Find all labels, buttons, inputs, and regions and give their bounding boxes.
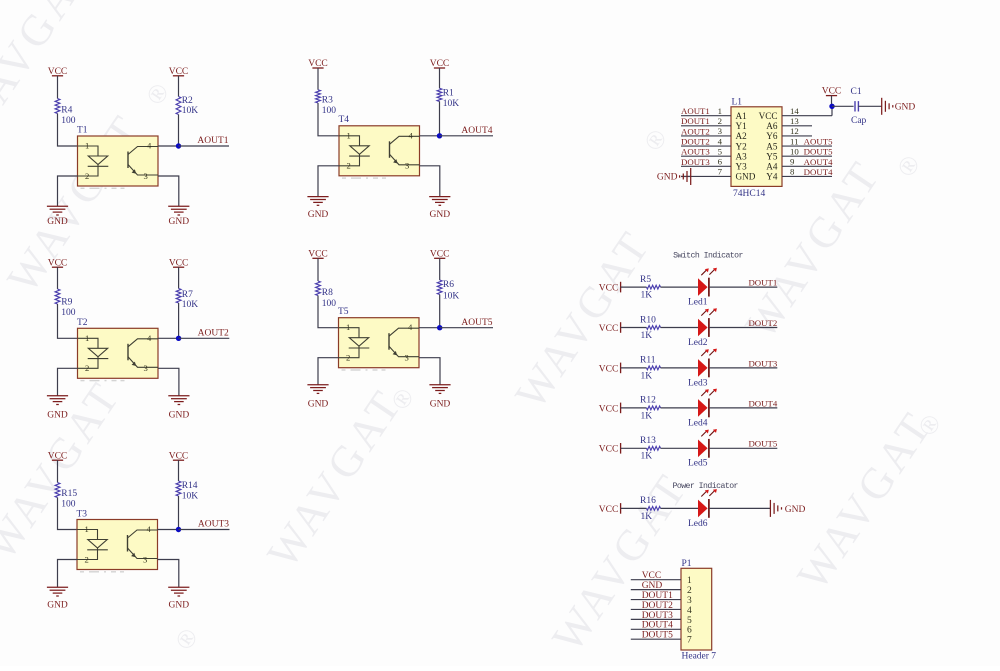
pin 9 of L1: [782, 157, 832, 167]
svg-text:P1: P1: [682, 559, 692, 569]
svg-text:11: 11: [790, 136, 798, 146]
svg-text:DOUT5: DOUT5: [642, 631, 673, 641]
svg-text:1: 1: [85, 141, 89, 151]
wire: [621, 407, 647, 409]
svg-text:2: 2: [85, 554, 89, 564]
optocoupler T4: [339, 115, 420, 178]
svg-text:1K: 1K: [641, 291, 653, 301]
node AOUT5: [437, 325, 442, 330]
wire: [621, 367, 647, 369]
IC U1 74HC14 (L1): [731, 98, 782, 199]
svg-text:R12: R12: [640, 396, 656, 406]
svg-text:2: 2: [85, 171, 89, 181]
svg-text:AOUT2: AOUT2: [681, 126, 710, 136]
wire: [420, 135, 440, 137]
ground: [770, 500, 805, 517]
wire: [318, 166, 339, 197]
resistor R7: [176, 289, 198, 311]
svg-text:10K: 10K: [182, 106, 199, 116]
wire: [419, 327, 440, 329]
ground: [307, 197, 328, 220]
svg-text:3: 3: [718, 126, 723, 136]
svg-text:GND: GND: [642, 581, 663, 591]
wire: [317, 258, 319, 281]
svg-text:GND: GND: [47, 217, 68, 227]
svg-text:2: 2: [347, 161, 351, 171]
wire: [681, 175, 691, 177]
pin 7 of L1: [681, 167, 731, 177]
svg-text:6: 6: [687, 626, 692, 636]
wire: [440, 135, 494, 137]
wire: [661, 327, 699, 329]
svg-text:GND: GND: [430, 210, 451, 220]
ground: [47, 396, 68, 421]
svg-text:AOUT4: AOUT4: [804, 157, 833, 167]
svg-text:C1: C1: [851, 87, 862, 97]
svg-text:AOUT1: AOUT1: [681, 106, 710, 116]
svg-text:100: 100: [61, 308, 76, 318]
connector P1 Header 7: [681, 559, 716, 661]
resistor R6: [437, 280, 459, 302]
svg-text:DOUT3: DOUT3: [681, 157, 710, 167]
svg-text:DOUT4: DOUT4: [804, 167, 833, 177]
svg-text:5: 5: [718, 146, 723, 156]
svg-text:T2: T2: [77, 318, 88, 328]
wire: [158, 368, 179, 396]
wire: [178, 76, 180, 97]
svg-text:VCC: VCC: [599, 445, 619, 455]
node AOUT3: [176, 527, 181, 532]
svg-text:GND: GND: [169, 601, 190, 611]
svg-text:A2: A2: [736, 131, 748, 141]
svg-text:R8: R8: [322, 288, 333, 298]
svg-text:GND: GND: [657, 173, 678, 183]
resistor R1: [437, 88, 459, 109]
svg-text:1K: 1K: [641, 411, 653, 421]
wire: [709, 407, 777, 409]
pin 6 of P1: [631, 626, 692, 636]
svg-text:10K: 10K: [182, 300, 199, 310]
svg-text:9: 9: [790, 157, 795, 167]
wire: [709, 447, 777, 449]
svg-text:Y2: Y2: [736, 141, 748, 151]
svg-text:A5: A5: [766, 141, 778, 151]
svg-text:R6: R6: [443, 280, 454, 290]
power VCC: [430, 59, 450, 69]
svg-text:R15: R15: [61, 489, 77, 499]
svg-text:100: 100: [322, 106, 337, 116]
svg-text:Y1: Y1: [736, 121, 748, 131]
wire: [57, 76, 59, 99]
svg-text:2: 2: [85, 363, 89, 373]
wire: [832, 105, 854, 107]
resistor R11: [640, 356, 661, 382]
resistor R5: [640, 275, 661, 301]
resistor R3: [316, 90, 337, 116]
svg-text:10K: 10K: [443, 99, 460, 109]
LED Led4: [688, 389, 717, 429]
wire: [439, 295, 441, 328]
svg-text:VCC: VCC: [599, 284, 619, 294]
pin 3 of P1: [631, 596, 692, 606]
pin 5 of L1: [681, 146, 731, 156]
svg-text:R16: R16: [640, 496, 656, 506]
power VCC: [430, 250, 450, 260]
pin 13 of L1: [782, 116, 812, 126]
svg-text:1: 1: [718, 106, 722, 116]
svg-text:AOUT2: AOUT2: [198, 329, 229, 339]
wire: [317, 68, 319, 90]
svg-text:VCC: VCC: [599, 404, 619, 414]
svg-text:74HC14: 74HC14: [733, 189, 765, 199]
svg-text:6: 6: [718, 157, 723, 167]
wire: [661, 447, 699, 449]
svg-text:Led4: Led4: [688, 418, 708, 428]
pin 14 of L1: [782, 106, 832, 116]
svg-text:T1: T1: [77, 126, 88, 136]
svg-text:R14: R14: [182, 481, 198, 491]
svg-text:Led6: Led6: [688, 519, 708, 529]
svg-text:Power Indicator: Power Indicator: [672, 481, 738, 491]
svg-text:1: 1: [85, 524, 89, 534]
svg-text:R3: R3: [322, 96, 333, 106]
svg-text:2: 2: [346, 353, 350, 363]
resistor R2: [176, 96, 198, 116]
svg-text:100: 100: [61, 116, 76, 126]
svg-text:10: 10: [790, 146, 799, 156]
svg-text:GND: GND: [47, 601, 68, 611]
power VCC: [169, 67, 189, 77]
svg-text:GND: GND: [308, 399, 329, 409]
svg-text:R9: R9: [61, 298, 72, 308]
svg-text:Y4: Y4: [766, 172, 778, 182]
wire: [439, 258, 441, 280]
wire: [57, 267, 59, 289]
power VCC: [822, 87, 842, 107]
node VCC junction: [829, 104, 834, 109]
resistor R13: [640, 436, 661, 462]
pin 5 of P1: [631, 616, 692, 626]
svg-text:R11: R11: [640, 356, 656, 366]
wire: [179, 145, 230, 147]
svg-text:DOUT4: DOUT4: [642, 621, 673, 631]
resistor R10: [640, 315, 661, 341]
pin 2 of L1: [681, 116, 731, 126]
svg-text:12: 12: [790, 126, 799, 136]
svg-text:Y5: Y5: [766, 151, 778, 161]
svg-text:GND: GND: [169, 217, 190, 227]
svg-text:DOUT3: DOUT3: [748, 358, 777, 368]
svg-text:R7: R7: [182, 290, 193, 300]
svg-text:GND: GND: [895, 103, 916, 113]
wire: [178, 267, 180, 288]
svg-text:Led1: Led1: [688, 298, 708, 308]
wire: [621, 507, 647, 509]
wire: [858, 105, 881, 107]
pin 11 of L1: [782, 136, 832, 146]
svg-text:T3: T3: [77, 509, 88, 519]
svg-text:VCC: VCC: [599, 364, 619, 374]
wire: [158, 560, 179, 588]
wire: [709, 507, 770, 509]
svg-text:Y3: Y3: [736, 162, 748, 172]
svg-text:4: 4: [687, 606, 692, 616]
ground: [429, 197, 450, 220]
pin 2 of P1: [631, 586, 692, 596]
wire: [661, 507, 699, 509]
svg-text:1K: 1K: [641, 452, 653, 462]
svg-text:1: 1: [85, 333, 89, 343]
LED Led1: [688, 268, 717, 308]
wire: [621, 286, 647, 288]
pin 10 of L1: [782, 146, 832, 156]
svg-text:4: 4: [408, 322, 413, 332]
ground: [168, 206, 189, 227]
svg-text:1K: 1K: [641, 331, 653, 341]
wire: [439, 68, 441, 88]
svg-text:AOUT4: AOUT4: [461, 126, 492, 136]
pin 3 of L1: [681, 126, 731, 136]
pin 4 of P1: [631, 606, 692, 616]
ground: [168, 587, 189, 610]
wire: [58, 304, 78, 338]
svg-text:AOUT3: AOUT3: [681, 147, 710, 157]
svg-text:L1: L1: [732, 98, 743, 108]
svg-text:14: 14: [790, 106, 799, 116]
svg-text:GND: GND: [736, 172, 756, 182]
svg-text:R13: R13: [640, 436, 656, 446]
svg-text:GND: GND: [308, 210, 329, 220]
LED Led2: [688, 308, 717, 348]
node AOUT2: [176, 336, 181, 341]
svg-text:T4: T4: [339, 115, 350, 125]
wire: [318, 358, 339, 385]
node AOUT1: [176, 143, 181, 148]
svg-text:VCC: VCC: [599, 505, 619, 515]
resistor R9: [55, 289, 76, 318]
svg-text:DOUT5: DOUT5: [748, 439, 777, 449]
svg-text:DOUT1: DOUT1: [642, 591, 673, 601]
svg-text:3: 3: [405, 353, 409, 363]
pin 8 of L1: [782, 167, 832, 177]
wire: [178, 115, 180, 147]
svg-text:2: 2: [687, 586, 692, 596]
svg-text:A3: A3: [736, 151, 748, 161]
svg-text:DOUT1: DOUT1: [681, 116, 710, 126]
svg-text:1: 1: [347, 130, 351, 140]
wire: [831, 106, 833, 115]
wire: [58, 176, 78, 206]
svg-text:3: 3: [143, 554, 147, 564]
power VCC: [599, 363, 621, 375]
power VCC: [308, 59, 328, 69]
svg-text:10K: 10K: [182, 492, 199, 502]
svg-text:AOUT3: AOUT3: [198, 520, 229, 530]
wire: [621, 447, 647, 449]
svg-text:4: 4: [718, 136, 723, 146]
svg-text:Led5: Led5: [688, 459, 708, 469]
pin 7 of P1: [631, 636, 692, 646]
svg-text:GND: GND: [430, 399, 451, 409]
power VCC: [308, 250, 328, 260]
svg-text:8: 8: [790, 167, 795, 177]
wire: [58, 560, 78, 588]
svg-text:R1: R1: [443, 89, 454, 99]
svg-text:5: 5: [687, 616, 692, 626]
svg-text:DOUT2: DOUT2: [681, 136, 710, 146]
svg-text:DOUT4: DOUT4: [748, 398, 777, 408]
optocoupler T3: [77, 509, 158, 572]
svg-text:4: 4: [409, 130, 414, 140]
power VCC: [599, 503, 621, 515]
wire: [58, 368, 78, 396]
pin 1 of P1: [631, 576, 692, 586]
svg-text:1: 1: [687, 576, 692, 586]
svg-text:3: 3: [405, 161, 409, 171]
wire: [57, 460, 59, 482]
svg-text:3: 3: [687, 596, 692, 606]
svg-text:DOUT2: DOUT2: [642, 601, 673, 611]
pin 1 of L1: [681, 106, 731, 116]
node AOUT4: [437, 133, 442, 138]
pin 4 of L1: [681, 136, 731, 146]
svg-text:3: 3: [144, 171, 148, 181]
wire: [439, 101, 441, 135]
svg-text:GND: GND: [169, 411, 190, 421]
optocoupler T2: [77, 318, 158, 381]
svg-text:AOUT5: AOUT5: [461, 318, 492, 328]
ground: [429, 385, 450, 410]
svg-text:DOUT1: DOUT1: [748, 278, 777, 288]
optocoupler T5: [338, 307, 419, 370]
LED Led6: [688, 489, 717, 529]
wire: [179, 337, 230, 339]
svg-text:100: 100: [322, 299, 337, 309]
svg-text:GND: GND: [47, 411, 68, 421]
svg-text:4: 4: [147, 141, 152, 151]
svg-text:4: 4: [147, 524, 152, 534]
svg-text:A4: A4: [766, 162, 778, 172]
wire: [179, 529, 230, 531]
wire: [178, 460, 180, 481]
svg-text:AOUT1: AOUT1: [197, 136, 228, 146]
svg-text:Y6: Y6: [766, 131, 778, 141]
wire: [158, 176, 179, 206]
svg-text:4: 4: [147, 333, 152, 343]
svg-text:R5: R5: [640, 275, 651, 285]
svg-text:VCC: VCC: [759, 111, 778, 121]
svg-text:A1: A1: [736, 111, 748, 121]
resistor R8: [316, 281, 337, 309]
svg-text:R10: R10: [640, 315, 656, 325]
wire: [661, 407, 699, 409]
power VCC: [599, 322, 621, 334]
ground: [168, 396, 189, 421]
ground: [657, 168, 691, 185]
power VCC: [169, 451, 189, 461]
wire: [178, 496, 180, 530]
wire: [420, 166, 440, 197]
power VCC: [48, 258, 68, 268]
wire: [661, 286, 699, 288]
svg-text:2: 2: [718, 116, 722, 126]
LED Led3: [688, 349, 717, 389]
svg-text:10K: 10K: [443, 292, 460, 302]
wire: [709, 286, 777, 288]
svg-text:1K: 1K: [641, 512, 653, 522]
power VCC: [599, 403, 621, 415]
svg-text:1K: 1K: [641, 371, 653, 381]
svg-text:Led2: Led2: [688, 338, 708, 348]
svg-text:Led3: Led3: [688, 378, 708, 388]
wire: [709, 367, 777, 369]
capacitor C1: [851, 87, 867, 126]
ground: [47, 206, 68, 227]
power VCC: [599, 443, 621, 455]
wire: [178, 303, 180, 338]
svg-text:GND: GND: [785, 505, 806, 515]
svg-text:DOUT5: DOUT5: [804, 147, 833, 157]
svg-text:Cap: Cap: [851, 116, 867, 126]
svg-text:R2: R2: [182, 96, 193, 106]
wire: [318, 296, 339, 328]
LED Led5: [688, 429, 717, 469]
wire: [440, 327, 493, 329]
svg-text:Switch Indicator: Switch Indicator: [673, 250, 743, 260]
pin 12 of L1: [782, 126, 812, 136]
svg-text:AOUT5: AOUT5: [804, 136, 833, 146]
ground: [47, 587, 68, 610]
resistor R15: [55, 483, 77, 510]
resistor R12: [640, 396, 661, 422]
svg-text:3: 3: [144, 363, 148, 373]
optocoupler T1: [77, 126, 158, 189]
wire: [158, 529, 179, 531]
wire: [621, 327, 647, 329]
power VCC: [169, 258, 189, 268]
wire: [419, 358, 440, 385]
resistor R4: [55, 99, 76, 126]
svg-text:13: 13: [790, 116, 799, 126]
power VCC: [599, 282, 621, 294]
wire: [58, 114, 78, 147]
resistor R16: [640, 496, 661, 522]
svg-text:Header 7: Header 7: [682, 652, 717, 662]
svg-text:A6: A6: [766, 121, 778, 131]
wire: [318, 103, 339, 136]
svg-text:1: 1: [346, 322, 350, 332]
pin 6 of L1: [681, 157, 731, 167]
wire: [709, 327, 777, 329]
svg-text:R4: R4: [61, 106, 72, 116]
svg-text:T5: T5: [338, 307, 349, 317]
wire: [158, 145, 179, 147]
resistor R14: [176, 481, 198, 502]
svg-text:DOUT2: DOUT2: [748, 318, 777, 328]
power VCC: [48, 451, 68, 461]
wire: [158, 337, 179, 339]
svg-text:100: 100: [61, 500, 76, 510]
ground: [307, 385, 328, 410]
ground: [882, 98, 916, 115]
svg-text:VCC: VCC: [599, 324, 619, 334]
svg-text:VCC: VCC: [642, 571, 662, 581]
svg-text:DOUT3: DOUT3: [642, 611, 673, 621]
wire: [661, 367, 699, 369]
svg-text:7: 7: [718, 167, 723, 177]
wire: [58, 498, 78, 530]
svg-text:7: 7: [687, 636, 692, 646]
